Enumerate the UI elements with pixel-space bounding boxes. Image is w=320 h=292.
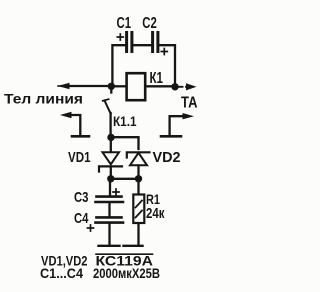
terminal: left output bar [99, 245, 120, 247]
capacitor C4 (electrolytic, + bottom left) [88, 217, 124, 231]
svg-text:VD2: VD2 [153, 149, 181, 166]
svg-text:К1.1: К1.1 [113, 113, 137, 129]
switch K1.1 (open contact) [103, 88, 112, 114]
capacitor C2 (electrolytic, + on right plate) [153, 33, 168, 55]
terminal: telephone line second wire (arrow, corner and bar) [60, 112, 89, 137]
svg-text:С2: С2 [142, 15, 157, 32]
svg-text:С1...С4: С1...С4 [40, 265, 83, 281]
wire: node D down to C3 [109, 180, 111, 195]
wire: between C3 and C4 [108, 203, 110, 217]
svg-text:К1: К1 [150, 70, 164, 87]
svg-text:С1: С1 [117, 15, 132, 32]
node A: junction of line, C1 riser and K1.1 [108, 83, 115, 90]
zener diode VD1 (anode top, cathode bar bottom with bent end) [99, 139, 122, 177]
wire: C2 right side down to node B [160, 45, 176, 86]
wire: riser from node A up to C1 [112, 45, 125, 86]
overline over КС119А [96, 253, 153, 255]
zener diode VD2 (cathode bar top with bent end, anode bottom) [127, 152, 150, 177]
node E: bottom rail right junction [135, 175, 142, 182]
capacitor C3 (electrolytic, + top right) [96, 189, 124, 202]
wire: bottom diode rail [111, 178, 139, 180]
svg-text:С3: С3 [74, 189, 89, 206]
wire: relay K1 to node B [146, 85, 173, 87]
wire: node A to relay K1 [113, 85, 125, 87]
wire: between C1 and C2 [133, 44, 151, 46]
resistor R1 (with power-rating slashes) [133, 195, 144, 224]
node B: junction of C2 drop and relay output [171, 83, 178, 90]
wire: C4 down to left output terminal [108, 224, 110, 245]
relay coil K1 [127, 73, 146, 100]
terminal: right output bar [124, 245, 143, 247]
node C: junction above diodes [107, 134, 114, 141]
svg-text:Тел линия: Тел линия [4, 91, 83, 107]
wire: main telephone-line wire (top) with left arrow [58, 83, 112, 89]
svg-text:ТА: ТА [181, 95, 198, 112]
capacitor C1 (electrolytic, + on left plate) [117, 33, 132, 52]
wire: top diode rail from node C to VD2 [111, 137, 139, 149]
wire: R1 down to right output terminal [137, 224, 139, 245]
node D: bottom rail left junction [107, 175, 114, 182]
svg-text:VD1: VD1 [68, 149, 91, 166]
terminal: dash-dot arrow to TA (right) [179, 83, 197, 90]
svg-text:С4: С4 [74, 210, 89, 227]
terminal: TA device second wire (arrow, corner and bar) [161, 113, 194, 136]
svg-text:24к: 24к [146, 205, 165, 222]
wire: switch to node C [109, 113, 111, 136]
wire: node E down to R1 [137, 180, 139, 194]
svg-text:2000мкХ25В: 2000мкХ25В [93, 265, 160, 281]
